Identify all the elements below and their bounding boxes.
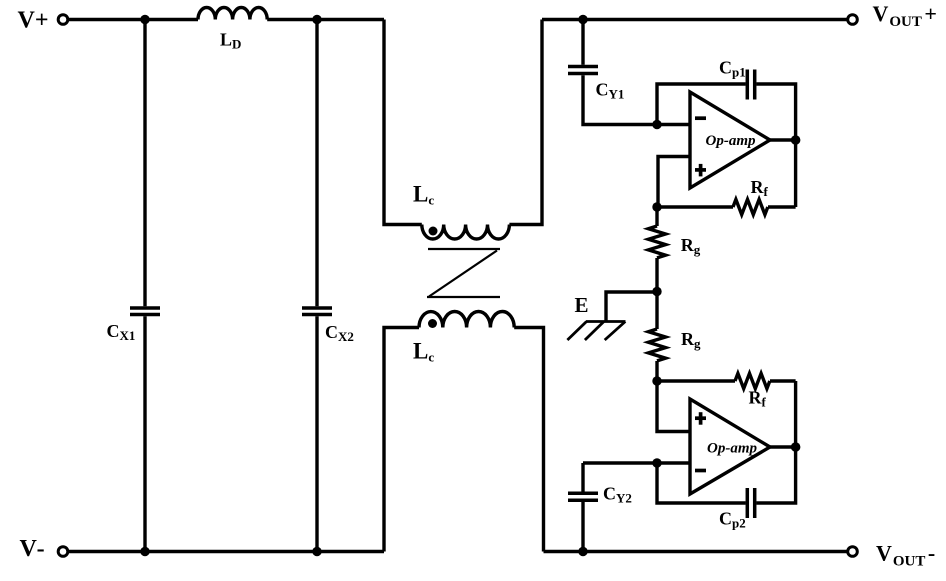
wire upper coil to corner up (509, 20, 542, 225)
capacitor Cp2 (746, 488, 750, 518)
op-amp U1 feedback top wire (657, 84, 746, 125)
capacitor CX1 (143, 20, 146, 307)
U1 minus sign (695, 116, 706, 120)
wire U1 minus input (657, 123, 690, 126)
node top-CY1 (578, 15, 587, 24)
inductor Lc lower winding (419, 312, 514, 328)
node E (652, 287, 661, 296)
wire lower coil to corner down (514, 328, 543, 552)
svg-text:Rg: Rg (681, 329, 701, 351)
wire U1 output (770, 138, 796, 141)
op-amp U2 (690, 399, 770, 494)
terminal V- (58, 547, 68, 557)
inductor Lc upper winding (422, 225, 510, 239)
svg-text:VOUT+: VOUT+ (873, 1, 937, 30)
wire bottom-left rail (68, 550, 384, 553)
resistor Rf2 wire (657, 379, 735, 382)
wire U2 plus input (657, 381, 690, 432)
svg-text:CY2: CY2 (603, 484, 632, 506)
node bottom-CX1 (140, 547, 149, 556)
phase dot upper (429, 227, 438, 236)
node Rg top (652, 202, 661, 211)
wire U2 output (770, 445, 796, 448)
svg-text:Rf: Rf (751, 177, 769, 199)
terminal VOUT- (848, 547, 858, 557)
node top-CX1 (140, 15, 149, 24)
capacitor CY2 (581, 463, 584, 492)
svg-text:Cp1: Cp1 (719, 58, 746, 80)
wire V+ to LD (68, 18, 198, 21)
U2 minus sign (695, 469, 706, 473)
svg-text:CX1: CX1 (107, 321, 136, 343)
svg-text:LD: LD (220, 30, 241, 52)
svg-text:VOUT-: VOUT- (876, 541, 935, 570)
node U2 output (791, 442, 801, 452)
wire top-right rail (542, 18, 848, 21)
node bottom-CX2 (312, 547, 321, 556)
svg-text:V-: V- (20, 536, 45, 562)
svg-text:Lc: Lc (413, 339, 434, 365)
svg-text:Lc: Lc (413, 182, 434, 208)
resistor Rf2 (735, 373, 770, 388)
ground E (567, 322, 625, 341)
node bottom-CY2 (578, 547, 587, 556)
U2 plus sign (695, 412, 706, 425)
terminal V+ (58, 15, 68, 25)
svg-text:Cp2: Cp2 (719, 509, 746, 531)
coupling Z symbol (427, 249, 500, 297)
capacitor CX2 (315, 20, 318, 307)
op-amp U2 feedback bottom wire (657, 463, 746, 503)
resistor Rg2 (655, 292, 658, 330)
svg-text:CX2: CX2 (325, 322, 354, 344)
wire bottom corner up to lower coil (384, 328, 419, 552)
terminal VOUT+ (848, 15, 858, 25)
wire to ground E (606, 292, 657, 321)
inductor LD (198, 7, 267, 19)
resistor Rf1 wire (657, 205, 733, 208)
wire U2 minus input (583, 461, 690, 464)
phase dot lower (428, 319, 437, 328)
wire LD to corner (267, 18, 384, 21)
wire corner down to upper coil (384, 20, 422, 225)
wire bottom-right rail (544, 550, 848, 553)
resistor Rf1 (733, 199, 768, 214)
svg-text:E: E (575, 293, 589, 317)
svg-text:Op-amp: Op-amp (707, 441, 757, 457)
svg-text:Rf: Rf (749, 388, 767, 410)
wire U1 plus input (658, 157, 690, 208)
node U1 output (791, 135, 801, 145)
node top-CX2 (312, 15, 321, 24)
resistor Rg1 (655, 207, 658, 226)
capacitor CY1 (581, 20, 584, 65)
node Rg bottom (652, 376, 661, 385)
capacitor Cp1 (746, 70, 750, 100)
svg-text:CY1: CY1 (596, 79, 625, 101)
svg-text:Rg: Rg (681, 235, 701, 257)
svg-text:V+: V+ (18, 7, 49, 33)
svg-text:Op-amp: Op-amp (706, 133, 756, 149)
node U2 inverting (652, 458, 661, 467)
op-amp U1 (690, 92, 770, 188)
U1 plus sign (695, 164, 706, 177)
node U1 inverting (652, 120, 661, 129)
